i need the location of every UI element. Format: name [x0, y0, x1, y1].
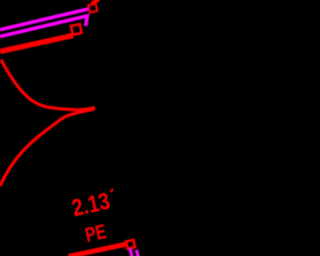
wall A (upper-left thick red wall) — [0, 36, 73, 52]
wall B stub above square1 — [92, 0, 99, 4]
wire: bottom magenta drop 1 — [130, 249, 132, 256]
jamb box square2 — [71, 24, 82, 35]
bottom wall — [69, 244, 126, 256]
door swing arc (upper) — [1, 60, 95, 110]
wire: bottom magenta drop 2 — [136, 250, 138, 256]
tick above 3 — [111, 189, 113, 192]
wire: lower magenta cable with stub down to jamb box — [0, 16, 87, 37]
door swing arc (lower) — [0, 109, 95, 186]
wire: upper magenta cable — [0, 9, 88, 30]
jamb box square3 (bottom right) — [126, 240, 135, 249]
jamb box square1 — [88, 4, 97, 13]
